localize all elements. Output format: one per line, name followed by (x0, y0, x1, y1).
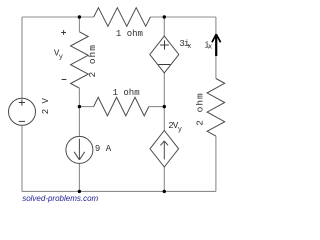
arrow inside 9A source (74, 139, 85, 160)
node A (78, 15, 81, 18)
dependent source U1 3ix diamond (150, 36, 179, 73)
svg-text:1 ohm: 1 ohm (116, 29, 143, 39)
polarity plus Vy (61, 30, 66, 35)
resistor R1 1 ohm top zigzag (94, 8, 151, 27)
node E bottom left (78, 190, 81, 193)
voltage source V1 2V circle (9, 98, 36, 125)
wire left side upper (21, 17, 23, 98)
svg-text:2 ohm: 2 ohm (87, 44, 98, 78)
svg-text:2 ohm: 2 ohm (195, 92, 206, 126)
node F bottom right (163, 190, 166, 193)
wire column1 9A source to bottom (78, 163, 80, 191)
dependent source U2 2Vy diamond (150, 131, 179, 168)
node D (163, 105, 166, 108)
wire column1 resistor to node C (78, 88, 80, 106)
node C (78, 105, 81, 108)
node B (163, 15, 166, 18)
svg-text:1 ohm: 1 ohm (113, 88, 140, 98)
wire column2 diamond 3ix to node D (163, 73, 165, 107)
arrow inside U2 (160, 141, 168, 159)
wire column2 diamond 2Vy to bottom (163, 167, 165, 191)
wire column2 node B to diamond 3ix (163, 17, 165, 36)
resistor R2 2 ohm vertical (Vy) zigzag (71, 32, 89, 88)
wire middle left lead (79, 106, 93, 108)
svg-text:9 A: 9 A (95, 144, 112, 154)
svg-text:y: y (178, 126, 182, 134)
polarity minus Vy (62, 79, 67, 81)
wire top from corner to node A (22, 16, 94, 18)
plus sign U1 (160, 40, 169, 49)
svg-text:y: y (59, 54, 63, 62)
minus sign V1 (19, 120, 25, 122)
wire right side lower (215, 136, 217, 191)
wire column1 node A to resistor Vy (78, 17, 80, 32)
current arrow ix (215, 36, 217, 57)
wire column2 node D to diamond 2Vy (163, 107, 165, 131)
wire column1 node C to 9A source (78, 107, 80, 137)
wire right side upper (215, 17, 217, 79)
svg-text:2 V: 2 V (41, 97, 51, 114)
resistor R4 2 ohm right zigzag (207, 79, 225, 137)
minus sign U1 (158, 64, 170, 66)
svg-text:x: x (187, 43, 191, 51)
wire top right segment to corner (150, 16, 216, 18)
plus sign V1 (19, 99, 25, 105)
wire bottom (22, 190, 216, 192)
svg-text:x: x (208, 43, 212, 51)
current source I1 9A circle (66, 136, 93, 163)
wire middle right lead (149, 106, 165, 108)
svg-text:solved-problems.com: solved-problems.com (22, 194, 98, 203)
resistor R3 1 ohm middle zigzag (94, 97, 149, 116)
wire left side lower (21, 125, 23, 191)
